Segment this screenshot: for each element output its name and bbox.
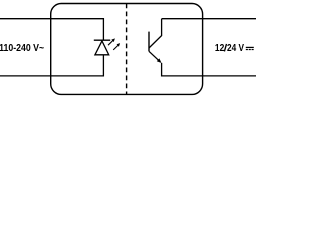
svg-text:12: 12 bbox=[215, 43, 225, 54]
svg-text:110-240 V~: 110-240 V~ bbox=[0, 43, 44, 54]
phototransistor Q1 emitter arrowhead bbox=[157, 58, 162, 63]
LED emission arrow 1 bbox=[108, 38, 115, 45]
phototransistor Q1 emitter lead bbox=[149, 51, 159, 60]
phototransistor Q1 base bar bbox=[148, 32, 150, 52]
wire DC output plus bbox=[162, 18, 256, 20]
optocoupler module outline U1 bbox=[51, 4, 203, 95]
label DC voltage slash bbox=[224, 44, 226, 52]
wire AC input bottom (N) bbox=[0, 55, 103, 76]
LED D1 triangle bbox=[95, 41, 109, 55]
svg-text:24 V: 24 V bbox=[227, 43, 244, 54]
wire DC output minus bbox=[162, 63, 256, 76]
isolation barrier dashed line bbox=[126, 4, 128, 95]
phototransistor Q1 collector lead bbox=[149, 19, 162, 48]
DC symbol dashed bar bbox=[246, 49, 254, 51]
DC symbol solid bar bbox=[246, 46, 254, 48]
LED D1 cathode bar bbox=[94, 39, 110, 41]
wire AC input top (L) bbox=[0, 19, 103, 41]
LED emission arrow 2 bbox=[113, 43, 120, 50]
